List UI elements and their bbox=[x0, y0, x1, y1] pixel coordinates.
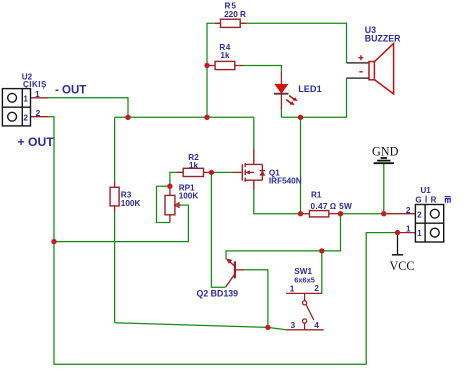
connector U2 pin1 stub bbox=[31, 97, 49, 99]
connector U1 pin1 stub bbox=[398, 232, 416, 234]
wire LED cathode down bbox=[280, 108, 282, 117]
wire R1 right to U1 pin2 bbox=[341, 213, 389, 215]
wire emitter net down to SW1 pin2 bbox=[321, 251, 323, 294]
node junction emitter wire / SW1 pin2 branch bbox=[319, 248, 324, 253]
svg-text:- OUT: - OUT bbox=[55, 85, 86, 97]
switch SW1 bbox=[286, 293, 324, 329]
connector U2 body bbox=[2, 89, 30, 126]
svg-text:1: 1 bbox=[417, 229, 422, 238]
wire diagonal R3 bottom to base junction bbox=[115, 323, 268, 328]
svg-text:2: 2 bbox=[36, 108, 41, 118]
svg-text:100K: 100K bbox=[121, 199, 141, 208]
node junction -OUT rail at R5/R4 branch bbox=[204, 115, 209, 120]
svg-text:100K: 100K bbox=[179, 192, 199, 201]
wire gate junction down to Q2 collector bbox=[211, 172, 225, 287]
wire Q1 source to R1 left bbox=[254, 190, 301, 214]
node junction +OUT / RP1 wiper rail bbox=[51, 239, 56, 244]
wire R5/R4 left vertical bbox=[207, 23, 221, 117]
svg-text:ÇIKIŞ: ÇIKIŞ bbox=[23, 80, 47, 89]
node junction R1 left / Q1 source bbox=[298, 211, 303, 216]
svg-text:BUZZER: BUZZER bbox=[365, 34, 401, 44]
wire -OUT rail to Q1 drain bbox=[115, 117, 254, 148]
wire U2 pin1 to -OUT net bbox=[48, 98, 128, 118]
node junction GND stem on U1 pin2 wire bbox=[381, 211, 386, 216]
wire RP1 wiper to +OUT rail bbox=[54, 205, 188, 242]
svg-text:220 R: 220 R bbox=[224, 10, 246, 19]
wire LED node down to R1 left bbox=[300, 117, 302, 213]
potentiometer RP1 bbox=[165, 186, 181, 222]
svg-text:2: 2 bbox=[417, 210, 422, 219]
connector U2 pin2 stub bbox=[31, 116, 49, 118]
node junction LED cathode rail to R1 branch bbox=[298, 115, 303, 120]
resistor R3 bbox=[110, 181, 119, 212]
wire R4 right to LED anode bbox=[243, 66, 281, 73]
resistor R2 bbox=[177, 168, 212, 176]
svg-text:1: 1 bbox=[406, 224, 411, 234]
wire R3 bottom vertical bbox=[114, 212, 116, 323]
node junction Q2 base / R3 / SW1 pin3 bbox=[265, 325, 270, 330]
node junction VCC / U1 pin1 bbox=[395, 230, 400, 235]
connector U1 pin2 stub bbox=[387, 213, 415, 215]
svg-text:2: 2 bbox=[23, 113, 28, 122]
wire LED node rail to buzzer minus bbox=[281, 78, 346, 117]
svg-text:1: 1 bbox=[23, 94, 28, 103]
wire RP1 left loop bbox=[157, 186, 170, 222]
LED1 bbox=[274, 72, 298, 109]
svg-text:1: 1 bbox=[35, 89, 40, 99]
wire U2 pin2 +OUT perimeter bbox=[48, 117, 397, 365]
wire Q2 base to SW1 pin3 junction bbox=[245, 270, 268, 328]
svg-text:+ OUT: + OUT bbox=[18, 135, 55, 149]
node junction R1 right / emitter branch bbox=[338, 211, 343, 216]
svg-text:U1: U1 bbox=[421, 186, 432, 195]
wire GND stem bbox=[383, 164, 385, 214]
wire R5 right to buzzer plus bbox=[240, 23, 347, 63]
svg-text:GND: GND bbox=[372, 144, 399, 158]
svg-text:1k: 1k bbox=[220, 51, 230, 60]
svg-text:2: 2 bbox=[314, 283, 319, 293]
transistor Q1 MOSFET IRF540N bbox=[233, 149, 266, 191]
ground symbol GND bbox=[374, 158, 394, 163]
svg-text:3: 3 bbox=[291, 320, 296, 330]
svg-text:IRF540N: IRF540N bbox=[269, 177, 302, 186]
svg-text:Q2 BD139: Q2 BD139 bbox=[197, 288, 239, 298]
wire R3 top branch bbox=[114, 117, 116, 181]
svg-text:0.47 Ω 5W: 0.47 Ω 5W bbox=[311, 201, 353, 211]
svg-text:2: 2 bbox=[406, 205, 411, 215]
resistor R1 bbox=[301, 211, 341, 217]
transistor Q2 BD139 bbox=[226, 258, 245, 287]
svg-text:4: 4 bbox=[314, 320, 319, 330]
power symbol VCC bbox=[392, 233, 403, 255]
wire R2 left to RP1 top bbox=[170, 172, 183, 186]
svg-text:1k: 1k bbox=[189, 161, 199, 170]
svg-text:R1: R1 bbox=[311, 191, 322, 200]
wire gate junction to Q1 gate bbox=[211, 171, 232, 173]
wire R1 right down to Q2 emitter bbox=[226, 214, 341, 260]
node junction -OUT at U2 wire corner bbox=[125, 115, 130, 120]
resistor R4 bbox=[207, 61, 243, 69]
svg-text:LED1: LED1 bbox=[298, 84, 322, 94]
buzzer U3 bbox=[347, 44, 394, 95]
svg-text:6x6x5: 6x6x5 bbox=[294, 275, 315, 284]
label U1 value glyph bbox=[445, 197, 451, 203]
node junction gate / R2 right bbox=[209, 170, 214, 175]
wire junction to SW1 pin3 bbox=[268, 327, 286, 329]
connector U1 body bbox=[415, 205, 443, 243]
resistor R5 bbox=[215, 19, 246, 27]
svg-text:VCC: VCC bbox=[390, 259, 415, 273]
svg-text:GİR: GİR bbox=[415, 196, 439, 205]
svg-text:1: 1 bbox=[290, 284, 295, 294]
node junction RP1 top / R2 left bbox=[167, 184, 172, 189]
node junction R4 left bbox=[204, 63, 209, 68]
